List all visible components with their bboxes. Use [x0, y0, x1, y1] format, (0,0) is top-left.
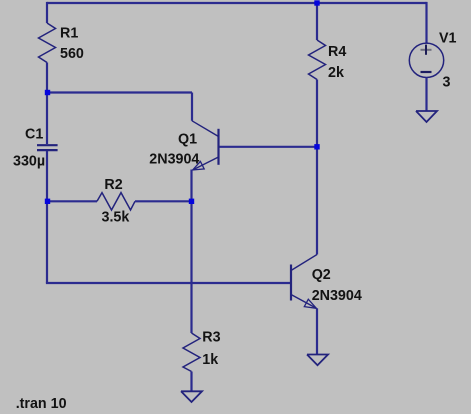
transistor Q2 (2N3904, NPN) [291, 255, 317, 309]
svg-text:.tran 10: .tran 10 [16, 396, 67, 412]
wire R1 bottom lead [46, 63, 48, 93]
wire C1 bottom lead [46, 151, 48, 201]
node at R4 / Q1 base / Q2 collector [314, 144, 319, 149]
svg-text:C1: C1 [25, 127, 43, 143]
svg-text:R4: R4 [328, 44, 346, 60]
resistor R2 [97, 193, 135, 210]
ground under R3 [181, 391, 202, 402]
wire left column down from C1 node [46, 201, 48, 283]
svg-text:1k: 1k [202, 352, 218, 368]
svg-text:R3: R3 [202, 330, 220, 346]
capacitor C1 [37, 145, 58, 150]
wire R4 bottom lead [316, 80, 318, 147]
svg-text:560: 560 [60, 46, 84, 62]
wire V1 bottom lead [425, 78, 427, 112]
svg-text:2N3904: 2N3904 [312, 288, 362, 304]
svg-text:2k: 2k [328, 65, 344, 81]
wire down to Q2 collector [316, 147, 318, 255]
wire Q1 base lead [220, 146, 318, 148]
wire C1 top lead [46, 93, 48, 145]
wire Q1 emitter vertical down to R3 [190, 170, 192, 334]
resistor R4 [309, 40, 326, 80]
wire Q2 emitter lead [316, 308, 318, 354]
svg-text:R1: R1 [60, 26, 78, 42]
resistor R3 [183, 333, 200, 372]
svg-text:V1: V1 [439, 31, 457, 47]
wire bottom row to Q2 base [46, 282, 291, 284]
node at top rail / R4 [314, 0, 319, 5]
wire Q1 collector vertical [191, 93, 193, 121]
wire V1 top lead [425, 2, 427, 44]
svg-text:3: 3 [443, 75, 451, 91]
svg-text:Q1: Q1 [178, 132, 197, 148]
node at R2 / Q1 emitter junction [189, 199, 194, 204]
svg-text:Q2: Q2 [312, 267, 331, 283]
wire R2 left lead [47, 200, 97, 202]
svg-text:2N3904: 2N3904 [149, 152, 199, 168]
svg-text:3.5k: 3.5k [102, 209, 130, 225]
wire R4 top lead [316, 3, 318, 40]
ground under V1 [416, 111, 437, 122]
wire from node to Q1 collector column [47, 91, 192, 93]
svg-text:330µ: 330µ [13, 153, 45, 169]
resistor R1 [39, 23, 56, 63]
transistor Q1 (2N3904, mirrored NPN) [192, 121, 219, 170]
wire R3 bottom lead [190, 372, 192, 392]
ground under Q2 [307, 355, 328, 366]
wire R1 top lead [46, 2, 48, 23]
svg-text:R2: R2 [104, 177, 122, 193]
wire top rail [47, 2, 427, 4]
voltage source V1 [409, 43, 443, 77]
node at R1 / C1 junction [45, 90, 50, 95]
wire R2 right lead [135, 200, 192, 202]
node at C1 / R2 junction [45, 199, 50, 204]
